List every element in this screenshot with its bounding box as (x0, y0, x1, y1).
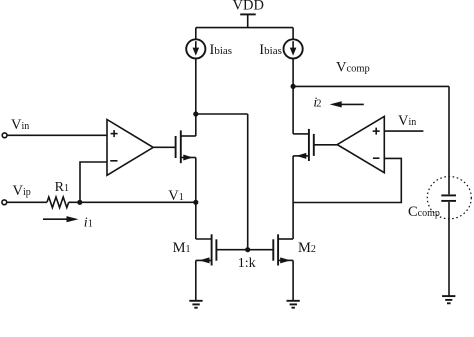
wire Vcomp (293, 85, 449, 87)
wire source column left (195, 158, 197, 240)
ground M1 (189, 301, 202, 308)
wire M2 source to ground (292, 260, 294, 300)
current arrow i1 (43, 216, 79, 222)
wire Vip to R1 (7, 201, 47, 203)
node Vcomp (dot) (291, 84, 296, 89)
wire R1 to V1 (69, 201, 196, 203)
terminal Vip (2, 200, 7, 205)
svg-text:R1: R1 (55, 180, 69, 195)
svg-text:VDD: VDD (233, 0, 264, 13)
node R1 / inverting input (dot) (77, 200, 82, 205)
wire mirror tap horizontal (196, 113, 248, 115)
capacitor Ccomp (441, 195, 456, 201)
current arrow i2 (330, 101, 364, 107)
svg-text:1: 1 (88, 218, 93, 229)
wire right branch drain column (292, 58, 294, 133)
transistor source follower right (293, 129, 337, 161)
node mirror tap (dot) (193, 111, 198, 116)
wire VDD rail (196, 27, 293, 29)
resistor R1 (47, 197, 69, 208)
op-amp A2 right (337, 116, 384, 172)
wire left rail drop (195, 28, 197, 40)
wire inverting input feedback left (80, 162, 107, 202)
current source Ibias left (186, 39, 205, 58)
transistor M2 (273, 234, 293, 265)
wire Vcomp down to Ccomp (448, 86, 450, 194)
node V1 (dot) (193, 200, 198, 205)
wire Ccomp to ground (448, 202, 450, 296)
wire source column right (292, 156, 294, 239)
wire gate bus M1-M2 (216, 249, 273, 251)
node gate bus (dot) (245, 247, 250, 252)
ground Ccomp (442, 296, 455, 303)
wire Vin right input (384, 130, 423, 132)
terminal Vin left (2, 133, 7, 138)
current source Ibias right (284, 39, 303, 58)
wire left branch drain column (195, 58, 197, 136)
highlight dashed circle around Ccomp (427, 177, 471, 219)
transistor source follower left (153, 130, 196, 163)
wire mirror tap vertical to gate node (247, 114, 249, 250)
ground M2 (287, 301, 300, 308)
svg-text:Ibias: Ibias (210, 42, 233, 58)
transistor M1 (196, 234, 217, 265)
op-amp A1 left (107, 120, 153, 176)
svg-text:Ibias: Ibias (259, 42, 282, 58)
wire Vin to non-inverting input (7, 134, 107, 136)
wire M1 source to ground (195, 260, 197, 300)
wire right rail drop (292, 28, 294, 40)
power VDD symbol (240, 14, 256, 27)
svg-text:1:k: 1:k (238, 256, 256, 271)
wire inverting feedback right (293, 158, 401, 202)
svg-text:2: 2 (316, 99, 321, 110)
